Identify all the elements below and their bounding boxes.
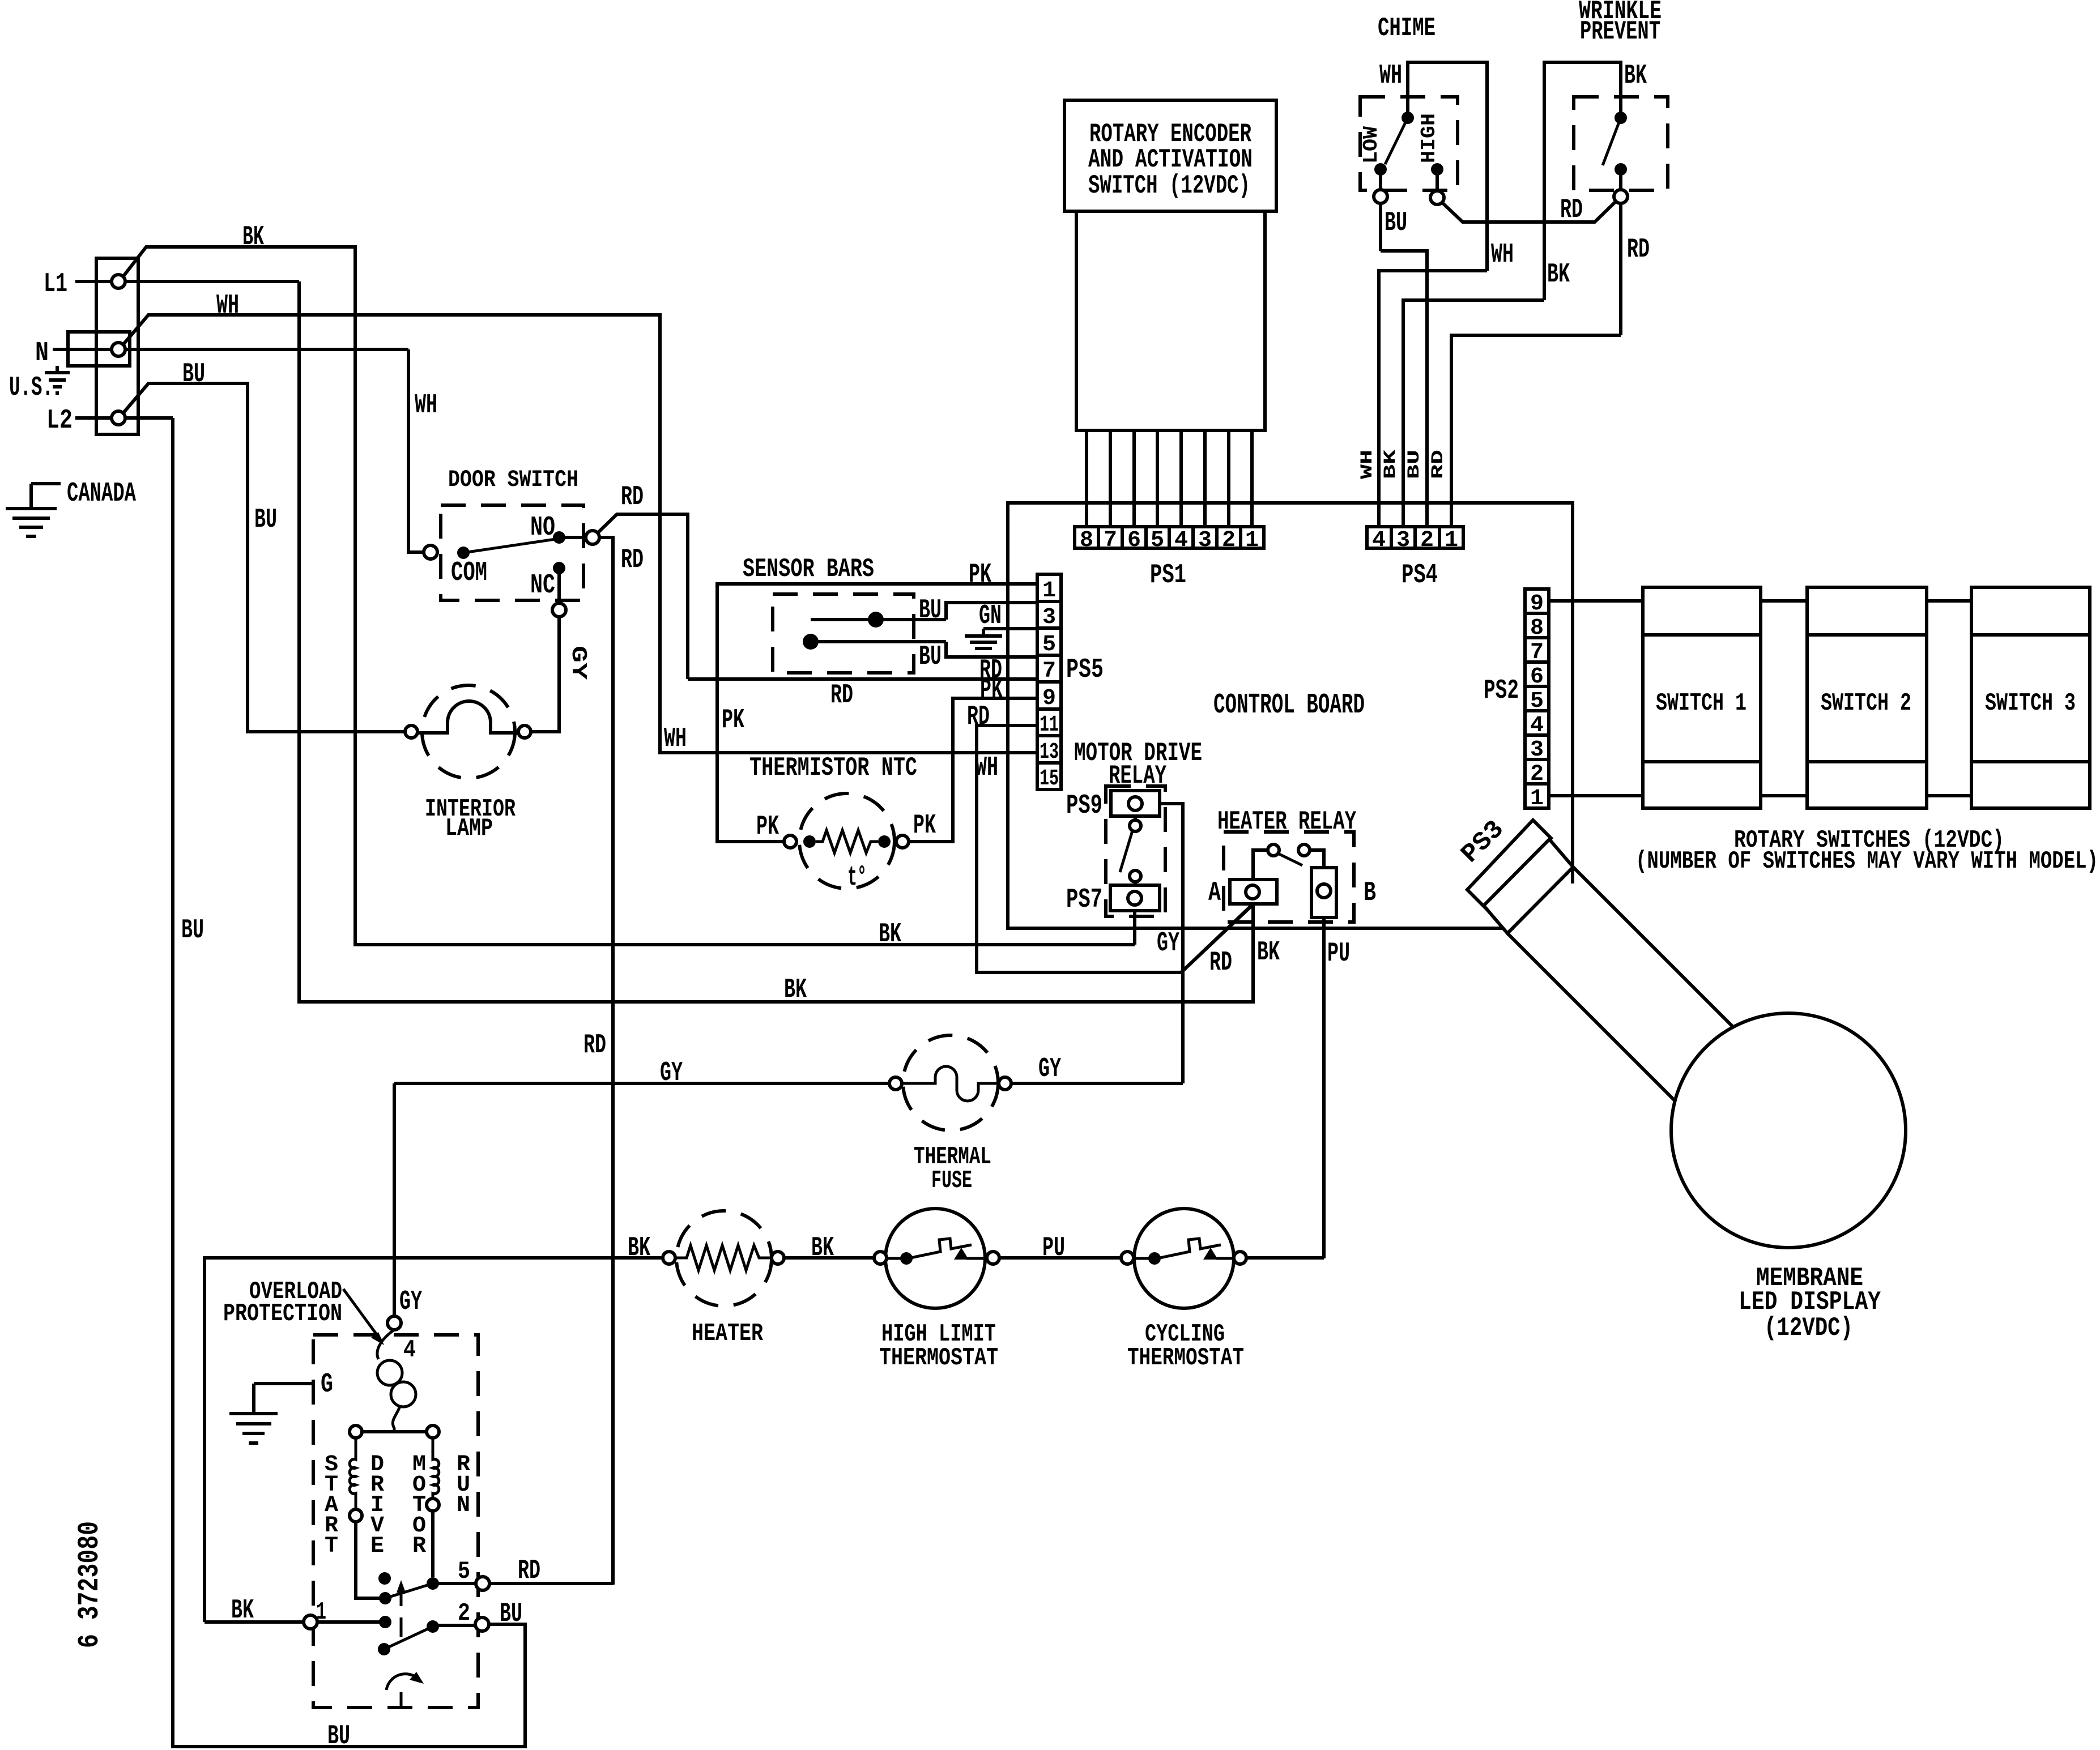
start winding coil [350, 1438, 356, 1509]
svg-text:SENSOR BARS: SENSOR BARS [743, 554, 874, 584]
svg-text:3: 3 [1396, 528, 1410, 553]
svg-text:RD: RD [1209, 947, 1232, 978]
run winding top terminal [427, 1425, 439, 1438]
wire PK sensor to thermistor [717, 679, 784, 842]
terminal L2 [112, 411, 125, 425]
door switch COM contact [457, 547, 470, 559]
wire WH from N terminal (drop to door switch COM) [408, 349, 424, 552]
svg-text:FUSE: FUSE [931, 1167, 972, 1195]
terminal L1 [112, 275, 125, 288]
svg-text:BU: BU [327, 1721, 350, 1750]
svg-text:3: 3 [1198, 528, 1212, 553]
wire WH from N (diag + run + drop + run to PS5 pin15) [122, 315, 1037, 753]
thermistor left terminal [784, 835, 796, 848]
PS4 cells [1367, 527, 1463, 553]
wire PK thermistor to PS5 pin11 [909, 698, 1037, 842]
wire BU bottom bar to PS5 pin7 [946, 642, 1037, 657]
svg-text:RD: RD [1429, 450, 1448, 479]
svg-text:LOW: LOW [1360, 126, 1383, 164]
wire GN to PS5 pin5 [983, 627, 1037, 630]
membrane circle [1671, 1013, 1906, 1248]
wire WH to PS4 pin4 [1379, 271, 1487, 527]
A coil box [1230, 880, 1277, 904]
ground U.S. [45, 366, 70, 393]
cycling left terminal [1121, 1252, 1134, 1264]
switch2 lower divider [1807, 760, 1927, 763]
wire BK heater to high limit [784, 1256, 874, 1260]
svg-text:(NUMBER OF SWITCHES MAY VARY W: (NUMBER OF SWITCHES MAY VARY WITH MODEL) [1635, 847, 2098, 876]
svg-text:1: 1 [1245, 528, 1259, 553]
svg-text:RUN: RUN [457, 1452, 470, 1518]
svg-text:GY: GY [1157, 928, 1179, 959]
heater left terminal [663, 1252, 675, 1264]
svg-text:WH: WH [1379, 61, 1402, 91]
neutral block [68, 332, 130, 366]
high limit right terminal [987, 1252, 999, 1264]
membrane neck upper [1573, 867, 1733, 1027]
svg-text:CHIME: CHIME [1378, 14, 1436, 43]
pin5 terminal [476, 1577, 489, 1590]
svg-text:BU: BU [500, 1599, 522, 1629]
wire NC stem [557, 568, 561, 603]
svg-text:BU: BU [181, 915, 204, 946]
svg-text:4: 4 [403, 1336, 416, 1364]
svg-text:RD: RD [583, 1030, 606, 1061]
svg-text:PK: PK [913, 810, 936, 841]
wire GY fuse right [1011, 1082, 1183, 1085]
pin2 terminal [475, 1617, 489, 1631]
overload dashed box [313, 1335, 478, 1708]
svg-text:CONTROL BOARD: CONTROL BOARD [1213, 689, 1365, 722]
switch2 upper divider [1807, 633, 1927, 637]
switch2 box [1807, 587, 1927, 808]
high limit left terminal [874, 1252, 887, 1264]
heater dashed circle [676, 1211, 772, 1306]
wire GY NC to lamp [530, 617, 559, 732]
door switch NO contact [553, 531, 565, 544]
wire N lead [53, 348, 408, 351]
svg-text:15: 15 [1040, 766, 1059, 792]
rotation arrow [386, 1672, 424, 1690]
wire NO to terminal [559, 536, 586, 539]
encoder label box [1064, 100, 1276, 211]
wire BK from L1 (diag + top run + drop) [122, 247, 1135, 945]
svg-text:BK: BK [242, 222, 264, 253]
svg-text:11: 11 [1040, 712, 1059, 738]
wire cycling to PU drop [1246, 1256, 1324, 1260]
svg-text:PS1: PS1 [1150, 560, 1186, 591]
high limit blade [887, 1239, 987, 1259]
svg-text:THERMOSTAT: THERMOSTAT [879, 1344, 998, 1372]
svg-text:6: 6 [1127, 528, 1141, 553]
run winding bottom wire [431, 1511, 435, 1577]
svg-text:PK: PK [969, 560, 991, 590]
door switch NC contact [553, 562, 565, 574]
svg-text:BK: BK [231, 1595, 254, 1626]
svg-text:2: 2 [1222, 528, 1236, 553]
membrane neck lower [1507, 933, 1675, 1101]
centrifugal lower actuator bar [400, 1617, 403, 1637]
svg-text:BK: BK [1547, 259, 1570, 290]
svg-text:BU: BU [254, 505, 277, 535]
lamp filament [417, 701, 519, 733]
wire switch2 to switch3 bottom [1927, 794, 1971, 797]
wire RD chime HIGH to wrinkle [1442, 201, 1616, 222]
svg-text:7: 7 [1104, 528, 1117, 553]
PS7 coil circle [1128, 891, 1141, 905]
wire BU top bar to PS5 pin3 [946, 603, 1037, 620]
svg-text:RD: RD [1560, 195, 1583, 225]
svg-text:RD: RD [967, 702, 990, 732]
svg-text:PS2: PS2 [1484, 676, 1519, 706]
B coil circle [1317, 884, 1331, 898]
thermistor resistor [816, 830, 878, 853]
svg-text:PK: PK [756, 812, 779, 842]
svg-text:9: 9 [1530, 591, 1544, 617]
sensor top bar [811, 618, 946, 621]
chime dashed box [1360, 97, 1458, 190]
terminal N [112, 343, 125, 356]
svg-text:BK: BK [1381, 450, 1400, 479]
cycling blade [1134, 1239, 1235, 1259]
svg-text:5: 5 [1042, 632, 1056, 658]
wrinkle bottom contact [1615, 163, 1627, 176]
wire run contact to pin5 [433, 1582, 476, 1585]
PS3 connector body [1484, 839, 1573, 933]
cycling moving contact [1203, 1248, 1218, 1260]
high limit contact dot [900, 1252, 913, 1265]
svg-text:LED DISPLAY: LED DISPLAY [1739, 1287, 1881, 1317]
thermistor left contact [803, 835, 816, 848]
svg-text:4: 4 [1174, 528, 1188, 553]
chime HIGH contact [1431, 163, 1443, 176]
wire BU to PS4 pin2 [1381, 251, 1427, 527]
wire PS7 bottom [1133, 911, 1136, 945]
overload coil loop2 [391, 1382, 416, 1407]
svg-text:8: 8 [1080, 528, 1093, 553]
control board outline [1008, 503, 1573, 928]
svg-text:PROTECTION: PROTECTION [223, 1300, 342, 1328]
svg-text:8: 8 [1530, 616, 1544, 641]
centrifugal lower blade [384, 1627, 433, 1649]
wire BK2 from L1 terminal row (drop + long run to heater relay A) [299, 281, 1253, 1002]
wrinkle stem [1619, 169, 1622, 190]
G wire [254, 1382, 315, 1385]
svg-text:HEATER: HEATER [692, 1320, 763, 1348]
PS3 connector plug [1467, 820, 1551, 908]
relay blade [1120, 831, 1132, 872]
wire right contact to B [1310, 850, 1324, 868]
wire BK motor top run [205, 1258, 663, 1622]
svg-text:GY: GY [566, 646, 590, 680]
svg-text:WH: WH [216, 291, 239, 321]
wrinkle top contact [1615, 112, 1627, 124]
svg-text:BU: BU [919, 595, 942, 626]
svg-text:L2: L2 [46, 406, 73, 436]
centrifugal lower fixed contact [379, 1616, 391, 1628]
svg-text:BK: BK [784, 975, 807, 1005]
high limit moving contact [954, 1248, 969, 1260]
svg-text:4: 4 [1372, 528, 1386, 553]
wire switch2 to switch3 top [1927, 599, 1971, 603]
heater relay right contact [1298, 844, 1310, 856]
wire RD wrinkle down [1619, 203, 1622, 335]
svg-text:A: A [1208, 878, 1221, 908]
wire left contact to A [1253, 850, 1268, 880]
svg-text:SWITCH (12VDC): SWITCH (12VDC) [1088, 171, 1250, 200]
chime LOW contact [1374, 163, 1387, 176]
centrifugal upper pivot [379, 1592, 391, 1604]
overload coil tail [393, 1406, 400, 1432]
svg-text:PU: PU [1327, 938, 1350, 969]
svg-text:BU: BU [919, 642, 942, 672]
start winding bottom terminal [350, 1509, 362, 1522]
wire PU from B [1322, 917, 1326, 1258]
svg-text:5: 5 [1530, 689, 1544, 714]
wire RD to PS4 pin1 [1451, 335, 1621, 527]
wire RD PS5 pin13 to heater relay A [977, 725, 1253, 972]
A coil circle [1246, 885, 1259, 899]
svg-text:BU: BU [1385, 208, 1407, 238]
svg-text:7: 7 [1530, 640, 1544, 665]
svg-text:BU: BU [1405, 450, 1424, 479]
wrinkle terminal [1614, 190, 1628, 203]
centrifugal actuator arrow [397, 1580, 406, 1606]
svg-text:3: 3 [1042, 605, 1056, 630]
svg-text:BK: BK [879, 919, 901, 950]
run winding coil [433, 1438, 439, 1499]
relay contact stem upper [1134, 816, 1137, 820]
svg-text:THERMOSTAT: THERMOSTAT [1127, 1344, 1244, 1372]
wrinkle dashed box [1574, 97, 1668, 190]
motor winding top wire [356, 1430, 433, 1433]
svg-text:U.S.: U.S. [9, 373, 53, 403]
centrifugal upper blade [385, 1583, 433, 1598]
lamp right terminal [518, 725, 531, 738]
heater relay blade [1278, 853, 1302, 865]
chime LOW stem [1379, 169, 1382, 190]
PS9 coil box [1111, 791, 1160, 816]
svg-text:5: 5 [1151, 528, 1164, 553]
svg-text:5: 5 [458, 1557, 470, 1586]
svg-text:GY: GY [660, 1058, 683, 1089]
cycling thermostat circle [1134, 1209, 1234, 1308]
svg-text:2: 2 [1530, 762, 1544, 787]
ground CANADA [6, 484, 61, 536]
PS9 coil circle [1128, 797, 1142, 810]
svg-text:6 3723080: 6 3723080 [73, 1521, 107, 1648]
wire switch1 to switch2 top [1761, 599, 1807, 603]
overload callout arrow [343, 1289, 384, 1345]
wire PS2 pin9 to switch1 [1549, 599, 1643, 603]
svg-text:6: 6 [1530, 664, 1544, 690]
svg-text:B: B [1364, 878, 1376, 908]
svg-text:RD: RD [1627, 234, 1650, 265]
svg-text:SWITCH 1: SWITCH 1 [1656, 689, 1747, 718]
heater relay dashed box [1224, 832, 1354, 922]
thermal fuse dashed circle [903, 1035, 998, 1130]
door switch dashed box [441, 505, 583, 600]
wire RD to sensor-bars return (diag + run + drop) [598, 514, 688, 679]
high limit thermostat circle [885, 1209, 985, 1308]
wire RD diag from A [1181, 904, 1253, 972]
wire RD pin5 to door switch RD drop [489, 1582, 613, 1585]
lamp dashed circle [422, 685, 515, 778]
wire GY to overload [393, 1083, 396, 1317]
NC terminal circle [552, 603, 566, 617]
svg-text:START: START [325, 1452, 338, 1559]
svg-text:THERMISTOR NTC: THERMISTOR NTC [749, 753, 917, 783]
svg-text:AND ACTIVATION: AND ACTIVATION [1088, 145, 1253, 174]
encoder body [1076, 211, 1265, 430]
svg-text:NO: NO [530, 513, 555, 543]
chime HIGH stem [1436, 169, 1439, 191]
ground GN [965, 629, 1002, 648]
wire L2 lead [75, 416, 173, 420]
wrinkle blade [1603, 118, 1621, 165]
svg-text:13: 13 [1040, 740, 1059, 765]
relay lower contact [1130, 870, 1141, 882]
heater right terminal [772, 1252, 784, 1264]
start winding top terminal [350, 1425, 362, 1438]
switch3 lower divider [1971, 760, 2090, 763]
relay upper contact [1130, 820, 1141, 831]
svg-text:RD: RD [621, 482, 644, 513]
PS5 cells [1037, 574, 1061, 792]
wire BU chime LOW [1379, 203, 1382, 251]
svg-text:PK: PK [722, 705, 744, 736]
overload heater coil [377, 1330, 394, 1359]
svg-text:9: 9 [1042, 686, 1056, 711]
svg-text:RD: RD [518, 1556, 540, 1586]
svg-text:G: G [321, 1369, 333, 1400]
overload coil loop1 [377, 1360, 402, 1385]
fuse right terminal [999, 1077, 1011, 1090]
svg-text:7: 7 [1042, 659, 1056, 684]
svg-text:COM: COM [451, 558, 487, 588]
overload terminal circle [387, 1316, 401, 1330]
svg-text:PK: PK [980, 675, 1003, 706]
sensor bars inner dashed box [773, 594, 914, 673]
wire WH chime common [1408, 62, 1487, 271]
wire BK to PS4 pin3 [1403, 300, 1544, 527]
wire PS9 to GY drop [1160, 804, 1183, 1083]
svg-text:PU: PU [1042, 1233, 1065, 1264]
B coil box [1311, 868, 1336, 917]
svg-text:1: 1 [1530, 786, 1544, 812]
wire switch1 to switch2 bottom [1761, 794, 1807, 797]
svg-text:WH: WH [415, 390, 437, 421]
svg-text:DOOR SWITCH: DOOR SWITCH [448, 466, 578, 493]
PS1 connector cells [1075, 527, 1264, 553]
sensor top bar contact [868, 612, 884, 628]
svg-text:NC: NC [530, 570, 555, 601]
wire BU from L2 terminal (long left drop to motor pin2 loop) [173, 418, 525, 1747]
ground G [229, 1384, 278, 1443]
svg-text:BK: BK [1624, 61, 1647, 91]
svg-text:PS4: PS4 [1402, 560, 1438, 591]
wire GY fuse left [394, 1082, 889, 1085]
sensor bottom bar [803, 640, 946, 643]
run winding bottom terminal [427, 1499, 439, 1511]
rotation tick [400, 1692, 403, 1708]
svg-text:WH: WH [664, 724, 687, 754]
svg-text:4: 4 [1530, 713, 1544, 739]
svg-text:2: 2 [458, 1599, 470, 1628]
encoder pin wires [1087, 430, 1252, 527]
svg-text:L1: L1 [44, 269, 67, 300]
svg-text:WH: WH [976, 753, 998, 783]
start winding bottom wire [356, 1522, 380, 1598]
svg-text:RD: RD [830, 680, 853, 711]
svg-text:N: N [35, 338, 49, 369]
cycling contact dot [1148, 1252, 1161, 1265]
wire BK wrinkle [1544, 62, 1621, 300]
wire L1 lead [75, 280, 299, 283]
svg-text:PREVENT: PREVENT [1580, 17, 1660, 46]
svg-text:BK: BK [1257, 937, 1280, 968]
svg-text:CANADA: CANADA [67, 479, 136, 509]
svg-text:LAMP: LAMP [445, 814, 493, 843]
svg-text:PS9: PS9 [1066, 791, 1102, 821]
chime LOW terminal [1374, 190, 1387, 203]
svg-text:2: 2 [1420, 528, 1434, 553]
svg-text:GY: GY [1038, 1054, 1061, 1085]
wire RD down to motor pin5 [599, 537, 613, 1585]
lamp left terminal [405, 725, 418, 738]
thermistor dashed circle [799, 793, 894, 889]
wire PU high limit to cycling [999, 1256, 1121, 1260]
thermistor right terminal [896, 835, 909, 848]
wire contact to pin2 [433, 1624, 475, 1627]
svg-text:SWITCH 3: SWITCH 3 [1985, 689, 2076, 718]
svg-text:DRIVE: DRIVE [370, 1452, 384, 1559]
centrifugal lower pivot [378, 1643, 390, 1655]
svg-text:1: 1 [1042, 578, 1056, 604]
svg-text:MOTOR: MOTOR [412, 1452, 426, 1559]
centrifugal upper fixed contact [378, 1572, 391, 1585]
svg-text:HIGH: HIGH [1417, 113, 1441, 163]
switch1 upper divider [1643, 633, 1761, 637]
heater element [675, 1245, 772, 1270]
switch1 lower divider [1643, 760, 1761, 763]
svg-text:1: 1 [1445, 528, 1458, 553]
fuse left terminal [889, 1077, 902, 1090]
svg-text:BK: BK [811, 1233, 834, 1264]
pin1 terminal [304, 1615, 317, 1629]
terminal block [96, 258, 138, 434]
svg-text:3: 3 [1530, 737, 1544, 763]
chime HIGH terminal [1430, 191, 1444, 204]
switch3 upper divider [1971, 633, 2090, 637]
sensor bottom bar contact [803, 634, 819, 650]
PS7 coil box [1110, 885, 1160, 911]
wire BK motor pin1 [205, 1620, 304, 1624]
chime blade [1385, 118, 1408, 164]
relay contact stem lower [1134, 882, 1137, 891]
wire BU from L2 (diag + run + drop to lamp) [122, 383, 406, 732]
svg-text:PS7: PS7 [1066, 885, 1102, 915]
switch1 box [1643, 587, 1761, 808]
heater relay left contact [1268, 844, 1279, 856]
svg-text:BU: BU [182, 359, 205, 390]
door switch NO terminal circle [586, 531, 599, 544]
svg-text:WH: WH [1491, 240, 1514, 270]
door switch blade [463, 539, 559, 553]
sensor bars RD return wire (bottom edge to PS5 pin9) [688, 677, 1037, 681]
svg-text:GN: GN [979, 601, 1002, 631]
svg-text:SWITCH 2: SWITCH 2 [1821, 689, 1911, 718]
